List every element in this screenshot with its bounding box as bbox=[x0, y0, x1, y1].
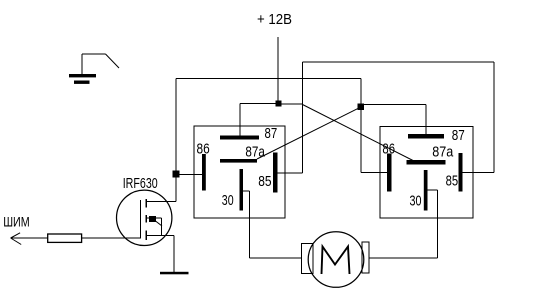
svg-text:87: 87 bbox=[265, 125, 278, 142]
wire drain up to J3 bbox=[175, 175, 177, 202]
wire J2 down to K2 pin 86 bbox=[361, 110, 387, 173]
motor M1 bbox=[302, 232, 370, 288]
coil pin 85 (K1) bbox=[273, 153, 278, 193]
wire K2 pin 30 to motor right bbox=[369, 190, 438, 258]
svg-text:86: 86 bbox=[197, 140, 210, 157]
svg-text:87a: 87a bbox=[245, 143, 265, 160]
node +12V label bbox=[257, 11, 292, 28]
pin 30 (K2) bbox=[424, 170, 428, 211]
wire J1 left to K1 pin 87 bbox=[240, 104, 276, 137]
coil pin 86 (K2) bbox=[387, 154, 392, 192]
wire diagonal to K2 pin 87a bbox=[303, 105, 414, 161]
svg-text:IRF630: IRF630 bbox=[123, 175, 158, 192]
wire diagonal J2 to K1 pin 87a bbox=[257, 107, 361, 159]
wire top link K1 pin 85 to K2 pin 85 bbox=[278, 62, 495, 173]
node junction J2 bbox=[358, 104, 365, 111]
contact 87a (K1) bbox=[220, 159, 257, 163]
svg-text:+ 12В: + 12В bbox=[257, 11, 292, 28]
ground (MOSFET source) bbox=[160, 272, 189, 275]
contact 87a (K2) bbox=[407, 160, 446, 165]
wire K1 pin 30 to motor left bbox=[242, 191, 302, 258]
svg-text:ШИМ: ШИМ bbox=[3, 213, 30, 229]
pin 30 (K1) bbox=[240, 169, 244, 211]
wire J3 to K1 pin 86 bbox=[180, 174, 203, 176]
contact 87 (K1) bbox=[220, 136, 259, 140]
wire source down to ground bbox=[173, 236, 175, 274]
svg-text:85: 85 bbox=[258, 173, 271, 190]
wire J1 right to diagonal start bbox=[282, 103, 303, 105]
wire upper bus from drain node to J2 bbox=[176, 79, 361, 172]
svg-text:86: 86 bbox=[382, 140, 395, 157]
wire J2 right to K2 pin 87 bbox=[364, 104, 426, 134]
ground (top-left chassis ground with switch lead) bbox=[69, 54, 119, 84]
svg-text:87a: 87a bbox=[432, 143, 454, 160]
node junction J3 (MOSFET drain / K1 pin 86) bbox=[173, 171, 180, 178]
node junction J1 (+12V bus) bbox=[276, 101, 282, 107]
svg-text:85: 85 bbox=[446, 172, 459, 189]
coil pin 86 (K1) bbox=[202, 154, 206, 191]
relay K1 body bbox=[194, 126, 285, 218]
svg-text:30: 30 bbox=[410, 193, 422, 210]
wire +12V down to junction bbox=[277, 37, 279, 101]
svg-text:30: 30 bbox=[222, 192, 234, 209]
resistor R1 (gate resistor) bbox=[48, 234, 82, 242]
wire R1 to gate bbox=[82, 237, 141, 239]
coil pin 85 (K2) bbox=[459, 153, 463, 192]
wire PWM input with arrow bbox=[11, 233, 48, 245]
relay K2 body bbox=[380, 127, 473, 219]
transistor VT1 (N-MOSFET) bbox=[117, 190, 176, 245]
contact 87 (K2) bbox=[408, 134, 444, 139]
svg-text:87: 87 bbox=[452, 127, 465, 144]
